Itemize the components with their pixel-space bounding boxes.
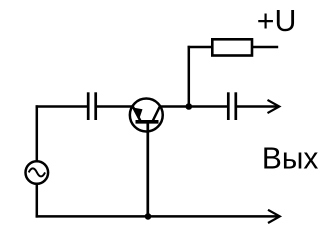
wire: C1 right plate to transistor emitter <box>97 105 134 108</box>
transistor VT1 circle <box>130 99 163 132</box>
AC source G1 sine wave <box>29 168 45 176</box>
transistor VT1 emitter arrow <box>134 108 142 118</box>
junction node: base to bottom rail <box>145 213 152 220</box>
svg-text:Вых: Вых <box>262 140 319 175</box>
wire: horizontal to resistor left terminal <box>188 46 212 49</box>
wire: output from C2 to arrow <box>237 105 278 108</box>
capacitor C2 left plate <box>227 92 230 120</box>
arrow: bottom rail arrowhead <box>268 210 280 223</box>
capacitor C1 right plate <box>94 92 97 120</box>
resistor R1 body <box>212 39 252 55</box>
transistor VT1 emitter diagonal <box>133 107 141 122</box>
wire: vertical from collector junction up to resistor level <box>188 46 191 107</box>
wire: resistor right terminal to +U stub <box>252 46 278 49</box>
transistor VT1 base bar <box>136 120 159 124</box>
junction node: collector / resistor tap <box>186 103 193 110</box>
wire: input horizontal from left corner to C1 left plate <box>36 105 88 108</box>
wire: left vertical from AC source bottom to bottom rail <box>36 184 39 218</box>
wire: bottom ground rail <box>36 215 279 218</box>
AC source G1 circle <box>26 161 49 184</box>
transistor VT1 collector diagonal <box>153 107 160 122</box>
wire: transistor collector to C2 left plate <box>160 105 228 108</box>
capacitor C2 right plate <box>234 92 237 120</box>
arrow: output terminal arrowhead <box>268 100 280 113</box>
wire: transistor VT1 base lead down to bottom rail <box>146 122 149 217</box>
wire: left vertical from corner down to AC source top <box>36 105 39 161</box>
svg-text:+U: +U <box>257 3 297 38</box>
capacitor C1 left plate <box>87 92 90 120</box>
